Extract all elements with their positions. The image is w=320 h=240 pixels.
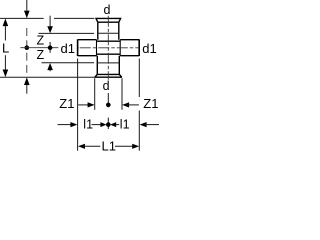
svg-text:Z1: Z1	[59, 96, 74, 111]
upper Z extension line (top socket pipe-stop extended left)	[39, 32, 95, 34]
dimension l1 left outside arrow	[58, 122, 78, 127]
extension line from right socket face	[138, 59, 140, 151]
svg-text:d: d	[103, 79, 110, 93]
svg-text:L: L	[2, 40, 9, 55]
top socket body sides	[98, 22, 119, 40]
node dot on centerline	[25, 45, 30, 50]
dimension d center tick and node dot	[106, 93, 111, 107]
dimension l1 right outside arrow	[140, 122, 159, 127]
svg-text:d1: d1	[142, 41, 156, 56]
right socket step (pipe stop)	[119, 40, 121, 56]
top socket flared rim	[96, 18, 121, 22]
fitting body top/bottom walls	[97, 41, 121, 54]
dimension Z arrow up (lower)	[47, 63, 53, 71]
right socket outer walls	[120, 40, 139, 56]
svg-text:Z: Z	[37, 48, 45, 62]
svg-text:l1: l1	[120, 118, 130, 132]
dimension Z1 right arrow and line	[122, 102, 139, 107]
dimension Z1 left line and arrow	[78, 102, 94, 107]
left socket face	[77, 39, 79, 56]
left socket outer walls	[78, 40, 97, 56]
bottom extension line (fitting bottom edge extended left)	[0, 76, 95, 78]
svg-text:Z: Z	[37, 33, 45, 47]
dimension Z line with node dot	[48, 42, 53, 53]
bottom socket pipe-stop line	[97, 62, 119, 64]
svg-text:d: d	[104, 3, 111, 17]
right socket face	[138, 39, 140, 56]
dimension L1 right arrow	[115, 144, 139, 149]
centerline arrow up (bottom, at x=26.8)	[24, 77, 30, 93]
left socket step (pipe stop)	[96, 40, 98, 56]
top socket pipe-stop line	[98, 32, 119, 34]
top extension line (fitting top edge extended left)	[0, 17, 94, 19]
lower Z extension line (bottom socket pipe-stop extended left)	[42, 62, 95, 64]
svg-text:L1: L1	[102, 138, 116, 153]
dimension L arrow up	[3, 19, 9, 41]
dimension l1 center lines, arrows and node dot	[92, 118, 120, 129]
extension line from left socket face	[77, 59, 79, 151]
centerline arrow down (top, at x=26.8)	[24, 0, 30, 18]
bottom socket body sides	[97, 56, 119, 75]
horizontal centerline of side view	[20, 47, 58, 49]
svg-text:d1: d1	[61, 41, 75, 56]
extension line from bottom rim left corner	[94, 78, 96, 110]
dimension L arrow down	[3, 55, 9, 77]
dimension Z arrow down (upper)	[47, 16, 53, 34]
extension line from bottom rim right corner	[121, 78, 123, 110]
dashed centerline vertical (side view axis)	[26, 28, 28, 77]
horizontal centerline of fitting	[78, 47, 139, 49]
svg-text:Z1: Z1	[143, 96, 158, 111]
dimension L1 left arrow	[78, 144, 100, 149]
vertical centerline of fitting	[107, 16, 109, 80]
bottom socket flared rim	[95, 74, 122, 77]
